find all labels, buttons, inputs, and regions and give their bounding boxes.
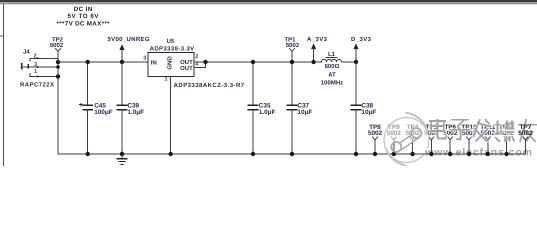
svg-text:10μF: 10μF	[297, 109, 312, 116]
testpoint TP10	[461, 124, 477, 156]
testpoint TP11	[480, 124, 495, 156]
svg-text:2: 2	[195, 54, 198, 60]
wire J4 pin 1	[30, 73, 58, 76]
svg-text:5002: 5002	[518, 130, 533, 137]
svg-text:GND: GND	[167, 56, 174, 70]
svg-text:OUT: OUT	[180, 65, 193, 72]
svg-text:U5: U5	[167, 38, 175, 45]
watermark CJK glyphs	[429, 119, 446, 138]
inductor L1 600 ohm ferrite	[321, 51, 343, 86]
border zone tick	[0, 35, 3, 37]
svg-text:5002: 5002	[368, 130, 383, 137]
node C35 top junction	[251, 60, 255, 64]
wire main unregulated rail	[58, 61, 148, 63]
svg-text:ADP3338AKCZ-3.3-R7: ADP3338AKCZ-3.3-R7	[174, 82, 245, 89]
svg-text:600Ω: 600Ω	[325, 63, 340, 70]
node C45 top junction	[86, 60, 90, 64]
node J4 rail junction	[56, 60, 60, 64]
svg-text:100μF: 100μF	[94, 109, 113, 116]
testpoint TP4	[405, 124, 420, 156]
wire from L1 to D_3V3 node	[342, 61, 357, 63]
svg-text:5002: 5002	[50, 42, 64, 49]
svg-text:DC IN: DC IN	[74, 6, 93, 13]
testpoint TP2	[50, 36, 64, 62]
capacitor C37 10uF	[287, 62, 313, 154]
capacitor C45 100uF	[79, 62, 113, 154]
svg-text:3: 3	[143, 56, 146, 62]
power flag 5V00_UNREG	[108, 36, 150, 62]
node J4 pin1 junction	[56, 74, 60, 78]
wire U5 ground stem	[170, 77, 172, 155]
svg-text:5002: 5002	[286, 42, 300, 49]
svg-text:RAPC722X: RAPC722X	[20, 82, 54, 89]
testpoint TP9	[387, 124, 402, 156]
note DC IN 5V TO 6V 7V DC MAX	[57, 6, 111, 28]
svg-text:100MHz: 100MHz	[321, 80, 343, 87]
svg-text:D_3V3: D_3V3	[351, 36, 372, 43]
testpoint TP8	[368, 124, 383, 156]
svg-text:ADP3338-3.3V: ADP3338-3.3V	[150, 46, 195, 53]
wire J4 pin 2	[30, 58, 58, 62]
svg-text:***7V DC MAX***: ***7V DC MAX***	[57, 20, 111, 27]
top page-crop band	[0, 0, 537, 2]
svg-text:J4: J4	[23, 49, 30, 56]
power flag A_3V3	[307, 36, 328, 62]
wire ground rail redraw through disc	[384, 143, 429, 156]
watermark logo disc	[384, 118, 429, 163]
wire ground rail	[58, 62, 526, 154]
node 5V00_UNREG junction	[120, 60, 124, 64]
svg-text:AT: AT	[328, 71, 336, 78]
left sheet border	[2, 4, 4, 166]
svg-text:1.0μF: 1.0μF	[259, 109, 276, 116]
testpoint TP5	[424, 124, 439, 156]
wire ground rail redraw over watermark	[420, 124, 533, 156]
svg-text:5V00_UNREG: 5V00_UNREG	[108, 36, 150, 43]
watermark swirl logo	[386, 113, 428, 166]
capacitor C35 1.0uF	[248, 62, 276, 154]
power flag D_3V3	[351, 36, 372, 62]
node ground rail junctions	[86, 152, 90, 156]
node J4 pin3 junction	[56, 65, 60, 69]
wire J4 pin 3	[28, 66, 59, 68]
testpoint TP7	[518, 124, 533, 154]
ground symbol	[116, 154, 127, 164]
svg-text:10μF: 10μF	[361, 109, 376, 116]
svg-text:1: 1	[165, 77, 168, 83]
regulator U5 ADP3338-3.3V	[143, 38, 245, 154]
node A_3V3 junction	[311, 60, 315, 64]
jack switch bar	[27, 64, 29, 69]
wire regulator output rail	[194, 61, 322, 63]
capacitor C39 1.0uF	[117, 62, 145, 154]
svg-text:www.elecfans.com: www.elecfans.com	[424, 147, 532, 159]
testpoint TP12	[499, 124, 515, 156]
svg-text:5V TO 6V: 5V TO 6V	[68, 13, 100, 20]
svg-text:IN: IN	[151, 59, 157, 66]
testpoint TP6	[443, 124, 458, 156]
jack tip bar	[21, 63, 23, 69]
wire pin4 riser	[194, 62, 206, 68]
svg-text:1: 1	[34, 69, 37, 75]
svg-text:1.0μF: 1.0μF	[127, 109, 144, 116]
svg-text:A_3V3: A_3V3	[307, 36, 328, 43]
node U5 output junction	[203, 60, 207, 64]
node TP1/C37 junction	[290, 60, 294, 64]
testpoint TP1	[284, 36, 299, 62]
node D_3V3 junction	[354, 60, 358, 64]
capacitor C38 10uF	[351, 62, 377, 154]
connector J4	[20, 49, 58, 89]
